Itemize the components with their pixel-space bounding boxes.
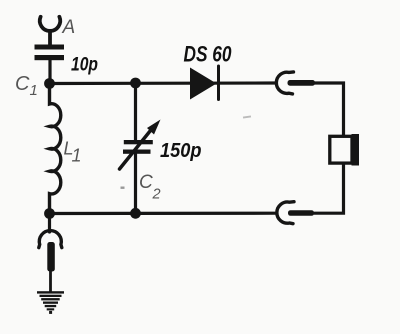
earphone <box>330 134 359 166</box>
connector plug pin bottom-right <box>288 210 314 216</box>
connector socket bottom-right <box>277 202 294 224</box>
speck near C2 <box>121 187 125 189</box>
wire C2 bottom <box>134 154 137 214</box>
wire C2 top <box>134 84 137 141</box>
wire top rail <box>50 81 276 85</box>
capacitor C1 <box>35 45 65 61</box>
label L1 <box>64 139 82 166</box>
wire node to socket bottom-left <box>48 214 51 233</box>
connector plug pin top-right <box>288 80 316 86</box>
svg-text:DS 60: DS 60 <box>184 42 233 67</box>
wire earphone to corner bottom-right <box>315 165 344 214</box>
label C2 <box>139 172 161 203</box>
wire plug to ground <box>49 271 52 292</box>
svg-text:A: A <box>62 17 76 38</box>
antenna A <box>40 17 60 46</box>
ground <box>37 291 64 314</box>
node C2 bottom junction <box>130 208 141 219</box>
connector socket top-right <box>276 72 293 94</box>
node C2 top junction <box>130 78 141 89</box>
variable capacitor C2 <box>120 120 161 170</box>
wire plug to corner top-right <box>315 83 344 136</box>
diode DS60 <box>190 66 219 100</box>
connector plug pin bottom-left <box>47 242 55 272</box>
svg-text:C: C <box>15 73 30 95</box>
node L1 bottom junction <box>44 208 55 219</box>
svg-text:1: 1 <box>30 82 38 99</box>
svg-text:10p: 10p <box>71 55 98 76</box>
svg-text:150p: 150p <box>160 139 202 162</box>
speck near 150p <box>243 115 251 118</box>
svg-text:2: 2 <box>152 187 161 203</box>
svg-text:1: 1 <box>72 146 82 166</box>
wire antenna to node <box>48 60 51 85</box>
svg-text:C: C <box>139 172 153 193</box>
wire bottom rail <box>50 212 277 216</box>
label C1 <box>15 73 38 99</box>
connector socket bottom-left <box>39 231 62 248</box>
inductor L1 <box>50 85 61 214</box>
node C1 junction <box>44 78 55 89</box>
